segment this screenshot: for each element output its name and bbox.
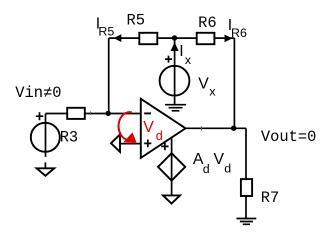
resistor R6 bbox=[197, 33, 215, 44]
wire left rail vertical bbox=[108, 38, 110, 113]
wire left horizontal to inverting input bbox=[46, 113, 141, 115]
red arrow Vd head bbox=[124, 133, 135, 142]
arrow I_R6 (points right) bbox=[225, 35, 232, 41]
svg-text:R6: R6 bbox=[198, 14, 216, 32]
svg-text:x: x bbox=[185, 53, 192, 67]
plus sign Vin bbox=[36, 112, 43, 120]
svg-text:V: V bbox=[198, 75, 209, 92]
wire output horizontal bbox=[172, 127, 246, 129]
plus sign Vx bbox=[165, 56, 172, 63]
wire right rail vertical bbox=[233, 38, 235, 128]
svg-text:d: d bbox=[224, 162, 231, 176]
input port triangle at noninverting input bbox=[111, 134, 120, 152]
wire noninverting input stub bbox=[120, 143, 141, 145]
svg-text:R5: R5 bbox=[127, 12, 145, 30]
junction node at output bbox=[231, 126, 236, 131]
wire dependent source vertical bbox=[171, 128, 173, 195]
svg-text:I: I bbox=[179, 43, 183, 60]
wire top horizontal bbox=[109, 37, 235, 39]
svg-text:x: x bbox=[209, 85, 216, 99]
svg-text:d: d bbox=[203, 162, 210, 176]
svg-text:R5: R5 bbox=[98, 25, 114, 39]
svg-text:R3: R3 bbox=[60, 128, 78, 146]
red arrow Vd arc bbox=[119, 112, 132, 140]
ground triangle below Vin bbox=[37, 168, 55, 175]
ground earth below Vx bbox=[165, 105, 186, 111]
dependent source diamond Ad*Vd bbox=[158, 153, 185, 180]
tick mark on left wire bbox=[90, 111, 92, 115]
svg-text:d: d bbox=[156, 129, 163, 143]
voltage source Vin circle bbox=[31, 123, 60, 152]
wire Vin source vertical stub bbox=[44, 114, 46, 168]
ground earth below R7 bbox=[237, 219, 257, 225]
wire R7 branch vertical bbox=[245, 128, 247, 218]
svg-text:V: V bbox=[143, 119, 154, 136]
svg-text:Vout=0: Vout=0 bbox=[261, 128, 316, 146]
svg-text:R7: R7 bbox=[261, 189, 279, 207]
minus marker inverting input bbox=[144, 112, 151, 114]
svg-text:Vin≠0: Vin≠0 bbox=[15, 84, 61, 102]
ground triangle below dependent source bbox=[163, 195, 180, 203]
resistor R7 bbox=[241, 179, 252, 196]
op-amp U1 triangle bbox=[141, 99, 186, 158]
plus marker noninverting input bbox=[144, 140, 151, 148]
svg-text:V: V bbox=[214, 151, 225, 168]
resistor R3 bbox=[67, 108, 85, 119]
wire Vx source vertical stub bbox=[174, 38, 176, 105]
arrow I_R5 (points left) bbox=[115, 35, 121, 41]
arrow I_x (points up) bbox=[171, 43, 178, 50]
voltage source Vx circle bbox=[160, 66, 190, 96]
junction node between R5 and R6 bbox=[172, 35, 177, 40]
tick mark on output wire bbox=[201, 126, 203, 130]
svg-text:R6: R6 bbox=[231, 26, 247, 40]
resistor R5 bbox=[139, 33, 157, 44]
plus sign dependent source bbox=[161, 143, 168, 151]
junction node at R3 / inverting input bbox=[106, 111, 111, 116]
